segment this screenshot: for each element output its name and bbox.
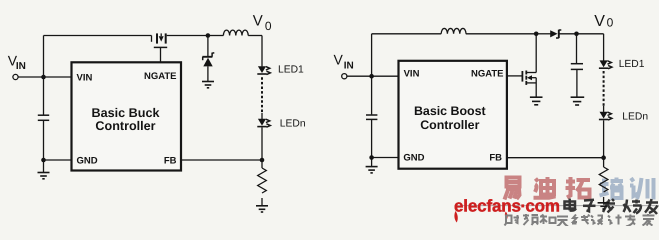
junction VIN (right) [369, 74, 374, 79]
svg-text:elecfans·com: elecfans·com [454, 197, 560, 216]
watermark slogan char PIN (gray) [523, 214, 538, 225]
wire GND pin to junction [44, 159, 72, 161]
inductor L1 (buck) [223, 30, 248, 35]
svg-text:LED1: LED1 [619, 59, 645, 70]
wire FB pin to junction (right) [507, 157, 604, 159]
wire dotted LED string (right) [603, 71, 605, 106]
junction switch node (left) [206, 33, 211, 38]
wire inductor to switch node (right) [466, 33, 536, 35]
junction GND (left) [41, 158, 46, 163]
wire PFET to switch node [167, 35, 208, 37]
capacitor C1 (buck input cap) [38, 114, 49, 116]
resistor R1 (buck sense) [258, 168, 267, 193]
ground (buck input) [38, 173, 50, 179]
wire resistor to ground (right) [603, 197, 605, 203]
wire inductor to Vo corner [248, 35, 262, 37]
svg-text:LED1: LED1 [278, 65, 304, 76]
ground (under D1) [202, 82, 214, 88]
watermark big char DI (red) [534, 177, 556, 198]
svg-text:IN: IN [16, 61, 26, 72]
wire output cap to ground [576, 70, 578, 97]
junction FB node (right) [601, 155, 606, 160]
svg-text:GND: GND [403, 152, 424, 163]
svg-text:FB: FB [164, 155, 177, 166]
wire Vo corner down to LED1 [261, 36, 263, 67]
wire resistor to ground [261, 198, 263, 206]
wire output node to Vo corner (right) [577, 33, 604, 35]
wire LEDn to FB node (right) [603, 120, 605, 167]
watermark logo drip under s [505, 212, 508, 220]
node VIN label (left) [8, 52, 26, 72]
controller U2: Basic Boost Controller box [399, 61, 507, 169]
svg-text:VIN: VIN [77, 73, 93, 84]
diode D1 (schottky freewheel) [202, 53, 214, 82]
node Vo label (right) [594, 13, 613, 30]
node VIN label (right) [334, 51, 354, 71]
watermark script char DIAN (dark) [565, 199, 576, 211]
svg-text:VIN: VIN [404, 68, 420, 79]
diode D2 (boost schottky) [550, 30, 576, 38]
watermark slogan char SHE (gray) [505, 215, 520, 226]
svg-text:V: V [253, 13, 263, 30]
watermark script char FA (dark) [603, 199, 615, 213]
watermark big char PEI (blue) [600, 178, 624, 199]
resistor R2 (boost sense) [599, 167, 608, 192]
wire VIN terminal to controller [18, 76, 71, 78]
watermark slogan char TIAN (gray) [557, 217, 568, 227]
watermark script char SHAO (dark) [624, 200, 642, 214]
watermark big char XUN (blue) [630, 178, 654, 200]
wire switch node to inductor [208, 35, 224, 37]
wire NGATE pin to Q2 gate [507, 75, 523, 77]
watermark slogan char SHE2 (gray) [591, 216, 603, 225]
capacitor C3 (boost output cap) [571, 63, 583, 65]
wire top rail to PFET [44, 35, 152, 37]
svg-text:0: 0 [265, 19, 272, 33]
watermark slogan char ZHUAN (gray) [625, 215, 636, 227]
junction FB node (left) [260, 158, 265, 163]
svg-text:V: V [334, 51, 344, 67]
transistor Q1 (P-FET high-side switch) [152, 33, 168, 61]
LED1 (left string) [257, 66, 270, 74]
svg-text:LEDn: LEDn [622, 111, 648, 122]
junction output node (right) [574, 32, 579, 37]
wire cap to GND junction (right) [371, 120, 373, 166]
wire Vo corner down to LED1 (right) [603, 34, 605, 61]
LEDn (right string) [599, 112, 612, 120]
wire GND pin to junction (right) [372, 157, 399, 159]
wire VIN terminal to controller (right) [347, 75, 399, 77]
svg-text:Basic Boost: Basic Boost [414, 104, 486, 118]
watermark logo drip under e [454, 211, 457, 223]
svg-text:NGATE: NGATE [471, 69, 504, 80]
LED1 (right string) [599, 60, 612, 68]
watermark big char TUO (red) [566, 177, 591, 198]
transistor Q2 (N-FET boost switch) [522, 34, 536, 97]
svg-text:GND: GND [77, 155, 98, 166]
wire VIN junction down to input cap (right) [371, 76, 373, 114]
wire top rail to inductor (right) [372, 33, 442, 35]
wire switch node down to diode D1 [207, 36, 209, 57]
wire VIN junction up to top rail (right) [371, 34, 373, 76]
svg-text:Controller: Controller [420, 118, 479, 132]
inductor L2 (boost) [441, 28, 466, 33]
svg-text:V: V [594, 13, 605, 30]
watermark slogan char JI (gray) [608, 215, 622, 225]
svg-text:FB: FB [489, 152, 502, 163]
node Vo label (left) [253, 13, 272, 33]
wire VIN junction up to top rail [43, 36, 45, 78]
junction GND (right) [369, 155, 374, 160]
junction VIN (left) [41, 75, 46, 80]
wire dotted LED string (left) [261, 77, 263, 113]
controller U1: Basic Buck Controller box [72, 62, 182, 170]
ground (under C3) [571, 97, 585, 105]
svg-text:Basic Buck: Basic Buck [92, 106, 161, 120]
wire VIN junction down to input cap [43, 77, 45, 115]
ground (under Q2) [530, 97, 543, 105]
wire output node down to output cap [576, 34, 578, 63]
ground (under R2) [598, 203, 610, 209]
svg-text:LEDn: LEDn [280, 119, 306, 130]
wire FB pin to junction [181, 159, 262, 161]
svg-text:NGATE: NGATE [144, 71, 177, 82]
wire LEDn to FB node [261, 128, 263, 169]
watermark script char YOU (dark) [645, 199, 658, 214]
svg-text:Controller: Controller [95, 119, 155, 133]
watermark script char ZI (dark) [583, 200, 596, 212]
wire switch node to diode D2 [536, 33, 550, 35]
watermark big char YI (red) [505, 178, 520, 200]
ground (boost input) [366, 167, 378, 173]
watermark slogan char HE (gray) [540, 215, 556, 225]
capacitor C2 (boost input cap) [366, 114, 377, 116]
watermark slogan char JIA (gray) [643, 214, 655, 226]
svg-text:IN: IN [344, 60, 354, 71]
watermark slogan char XIAN (gray) [572, 215, 590, 225]
svg-text:0: 0 [607, 15, 614, 29]
watermark divider line [455, 205, 659, 207]
terminal VIN (right) [342, 74, 347, 79]
terminal VIN (left) [13, 74, 18, 79]
junction switch node (right) [534, 32, 539, 37]
ground (under R1) [256, 206, 268, 212]
wire cap to ground [43, 121, 45, 173]
LEDn (left string) [257, 119, 270, 127]
